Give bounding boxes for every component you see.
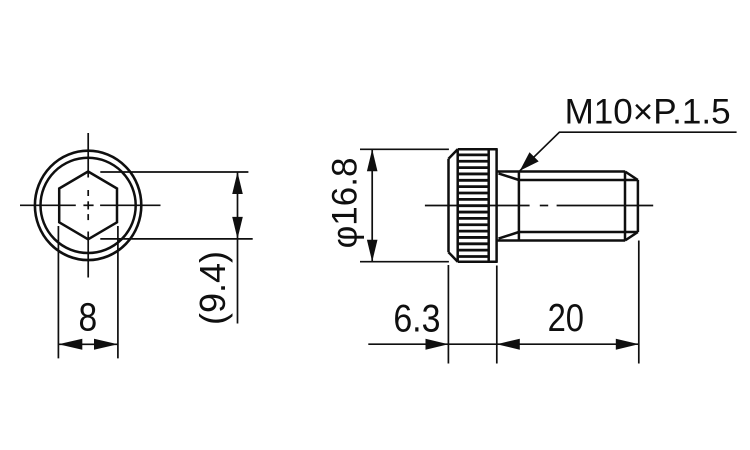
head left edge xyxy=(447,159,450,252)
dim (9.4) arrow down xyxy=(232,217,243,239)
svg-text:φ16.8: φ16.8 xyxy=(326,158,365,249)
dim 6.3 / 20 extension line middle xyxy=(496,266,498,364)
vertical centerline xyxy=(87,133,89,278)
dim phi16.8 arrow up xyxy=(367,149,378,171)
threaded shank xyxy=(497,172,638,241)
dim phi16.8 extension line top xyxy=(360,148,449,150)
dim (9.4) dimension line xyxy=(237,172,239,324)
dim phi16.8 extension line bottom xyxy=(360,261,449,263)
leader arrowhead xyxy=(520,152,539,171)
svg-text:M10×P.1.5: M10×P.1.5 xyxy=(565,92,731,131)
full thread boundary xyxy=(518,172,521,241)
svg-text:6.3: 6.3 xyxy=(393,296,440,340)
head bottom edge xyxy=(458,260,498,263)
knurl lines xyxy=(458,155,489,257)
outer circle (head outline) xyxy=(35,151,141,260)
dim 8 extension line right xyxy=(117,226,119,358)
end chamfer bottom xyxy=(625,232,638,241)
end chamfer tangent line xyxy=(624,172,627,241)
shank major top line xyxy=(497,170,625,173)
inner circle (chamfer) xyxy=(41,158,136,253)
head top edge xyxy=(458,148,498,151)
dim 8 extension line left xyxy=(57,226,59,358)
svg-text:(9.4): (9.4) xyxy=(192,251,233,325)
leader line for thread callout xyxy=(520,132,737,171)
horizontal centerline xyxy=(20,204,161,206)
dim phi16.8 dimension line xyxy=(371,149,373,261)
head chamfer top-left xyxy=(449,149,458,159)
axis centerline xyxy=(425,205,653,207)
thread minor bottom line xyxy=(519,231,638,234)
head right edge xyxy=(495,149,498,261)
dim 20 dimension line xyxy=(497,343,639,345)
dim (9.4) extension line bottom xyxy=(100,238,252,240)
dim 6.3 extension line left xyxy=(447,265,449,364)
hex socket xyxy=(59,172,117,240)
dim 20 arrow left xyxy=(497,339,520,350)
dim 6.3 dimension line xyxy=(368,343,497,345)
knurled head outline xyxy=(449,149,498,261)
dim (9.4) arrow up xyxy=(232,172,243,194)
knurl boundary left xyxy=(456,149,459,261)
end chamfer top xyxy=(625,172,638,181)
thread runout bottom xyxy=(499,232,519,239)
dim 8 arrow left xyxy=(58,339,82,350)
svg-text:8: 8 xyxy=(78,295,97,339)
dim 20 extension line right xyxy=(638,241,640,364)
shank end face xyxy=(637,180,640,232)
dim 8 dimension line xyxy=(58,343,118,345)
shank major bottom line xyxy=(497,239,625,242)
knurl boundary right xyxy=(487,149,490,261)
svg-text:20: 20 xyxy=(548,295,584,339)
dim 6.3 arrow xyxy=(426,339,449,350)
dim 8 arrow right xyxy=(94,339,118,350)
thread minor top line xyxy=(519,179,638,182)
thread runout top xyxy=(499,173,519,180)
dim (9.4) extension line top xyxy=(100,171,248,173)
head chamfer bottom-left xyxy=(449,252,458,262)
dim phi16.8 arrow down xyxy=(367,240,378,262)
dim 20 arrow right xyxy=(616,339,639,350)
